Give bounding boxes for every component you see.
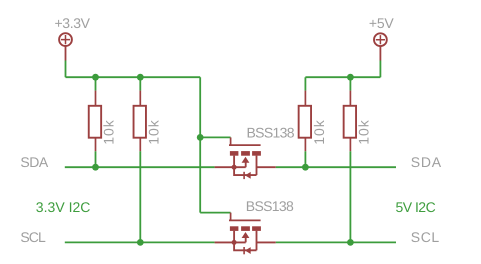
wire SCL right xyxy=(276,241,396,243)
node junction R4 rail xyxy=(347,74,354,81)
svg-text:SDA: SDA xyxy=(411,154,442,170)
node junction R2 SCL xyxy=(137,239,144,246)
wire gate Q1 xyxy=(200,136,230,138)
supply +3V3 symbol P1 xyxy=(59,33,72,60)
svg-text:10k: 10k xyxy=(145,119,161,145)
wire 3.3V rail xyxy=(66,61,201,213)
resistor R3 10k xyxy=(299,91,311,152)
svg-text:10k: 10k xyxy=(311,119,327,145)
wire R4 top stub xyxy=(349,77,351,90)
wire R1 bottom to SDA xyxy=(95,151,97,167)
wire 5V rail xyxy=(305,61,380,91)
svg-text:SCL: SCL xyxy=(411,229,440,245)
svg-text:+5V: +5V xyxy=(369,15,394,31)
node junction R2 rail xyxy=(137,74,144,81)
svg-text:SCL: SCL xyxy=(20,229,46,245)
resistor R4 10k xyxy=(344,91,356,152)
node junction gate rail xyxy=(197,134,204,141)
svg-text:10k: 10k xyxy=(100,119,116,145)
supply +5V symbol P2 xyxy=(374,33,387,60)
wire gate Q2 xyxy=(200,212,230,214)
resistor R2 10k xyxy=(134,91,146,152)
node junction R1 rail xyxy=(92,74,99,81)
wire R3 bottom to SDA xyxy=(304,151,306,167)
svg-text:SDA: SDA xyxy=(20,154,48,170)
resistor R1 10k xyxy=(89,91,101,152)
transistor Q1 BSS138 xyxy=(215,137,276,179)
svg-text:BSS138: BSS138 xyxy=(246,198,294,214)
svg-text:BSS138: BSS138 xyxy=(247,124,295,140)
wire R2 top stub xyxy=(139,77,141,90)
wire SCL left xyxy=(65,241,215,243)
wire R4 bottom to SCL xyxy=(349,151,351,242)
wire SDA left xyxy=(65,166,215,168)
node junction R1 SDA xyxy=(92,164,99,171)
svg-text:10k: 10k xyxy=(356,119,372,145)
node junction R4 SCL xyxy=(347,239,354,246)
wire R1 top stub xyxy=(95,77,97,90)
svg-text:+3.3V: +3.3V xyxy=(55,15,91,31)
svg-text:3.3V I2C: 3.3V I2C xyxy=(36,199,91,215)
wire SDA right xyxy=(276,166,396,168)
transistor Q2 BSS138 xyxy=(215,213,276,255)
svg-text:5V I2C: 5V I2C xyxy=(396,199,436,215)
wire R2 bottom to SCL xyxy=(139,151,141,242)
node junction R3 SDA xyxy=(302,164,309,171)
